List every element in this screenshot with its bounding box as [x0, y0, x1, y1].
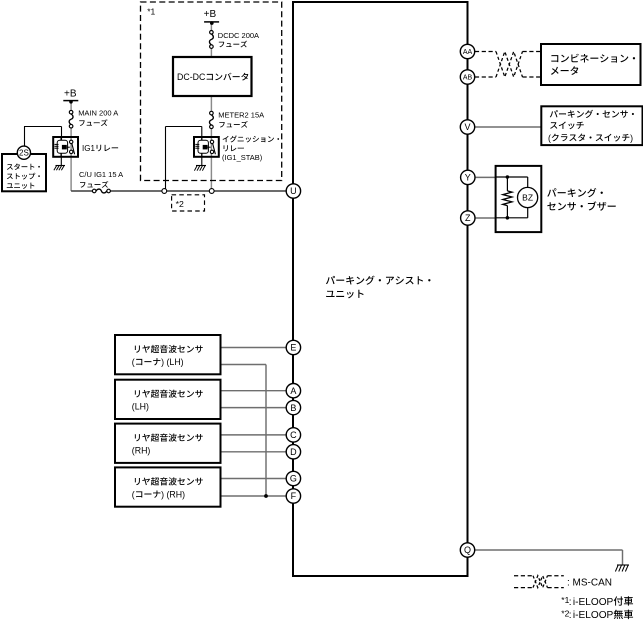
svg-text:(: ( — [132, 357, 135, 367]
svg-text:METER2 15A: METER2 15A — [218, 111, 264, 120]
svg-text:E: E — [290, 343, 296, 353]
svg-text:+B: +B — [204, 9, 217, 20]
svg-text:AA: AA — [463, 49, 473, 56]
svg-text:IG1: IG1 — [82, 144, 95, 153]
svg-text:Q: Q — [464, 545, 471, 555]
svg-text:C/U IG1 15 A: C/U IG1 15 A — [79, 170, 123, 179]
svg-text:): ) — [630, 133, 633, 143]
svg-text:DCDC 200A: DCDC 200A — [218, 31, 259, 40]
svg-text:Y: Y — [465, 173, 471, 183]
svg-text:DC-DC: DC-DC — [177, 72, 206, 82]
svg-text:MAIN 200 A: MAIN 200 A — [78, 109, 118, 118]
svg-text:+B: +B — [64, 89, 77, 100]
svg-text::: : — [569, 597, 572, 608]
svg-text:Z: Z — [465, 213, 471, 223]
svg-text:(: ( — [132, 489, 135, 499]
svg-text:*2: *2 — [176, 199, 184, 209]
svg-text:BZ: BZ — [522, 193, 533, 203]
svg-text:G: G — [290, 474, 297, 484]
svg-text:2S: 2S — [19, 149, 29, 158]
svg-text:C: C — [290, 430, 297, 440]
svg-text:) (RH): ) (RH) — [161, 489, 185, 499]
svg-text:(IG1_STAB): (IG1_STAB) — [222, 153, 263, 162]
svg-text::: : — [569, 610, 572, 620]
svg-text:: MS-CAN: : MS-CAN — [567, 577, 612, 588]
svg-text:(LH): (LH) — [132, 402, 149, 412]
svg-text:F: F — [291, 491, 297, 501]
svg-text:A: A — [290, 386, 296, 396]
svg-text:B: B — [290, 403, 296, 413]
svg-text:i-ELOOP: i-ELOOP — [573, 597, 614, 608]
svg-text:(RH): (RH) — [132, 446, 151, 456]
svg-text:U: U — [290, 186, 297, 196]
svg-text:i-ELOOP: i-ELOOP — [573, 610, 614, 620]
svg-text:V: V — [464, 122, 470, 132]
svg-text:) (LH): ) (LH) — [161, 357, 184, 367]
svg-text:(: ( — [548, 133, 551, 143]
svg-text:AB: AB — [463, 75, 473, 82]
svg-text:*1: *1 — [147, 7, 155, 17]
svg-text:D: D — [290, 447, 297, 457]
